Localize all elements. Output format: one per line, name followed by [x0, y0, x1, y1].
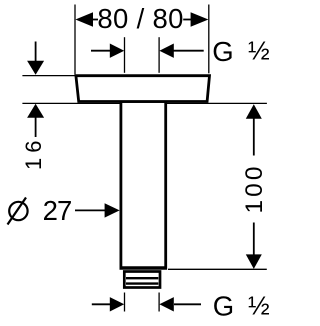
svg-text:80 / 80: 80 / 80	[97, 3, 183, 34]
svg-text:G: G	[212, 36, 233, 67]
svg-text:G: G	[213, 291, 234, 322]
svg-text:27: 27	[43, 195, 73, 226]
svg-text:100: 100	[241, 167, 268, 214]
svg-text:½: ½	[248, 290, 270, 320]
svg-text:½: ½	[248, 35, 270, 65]
